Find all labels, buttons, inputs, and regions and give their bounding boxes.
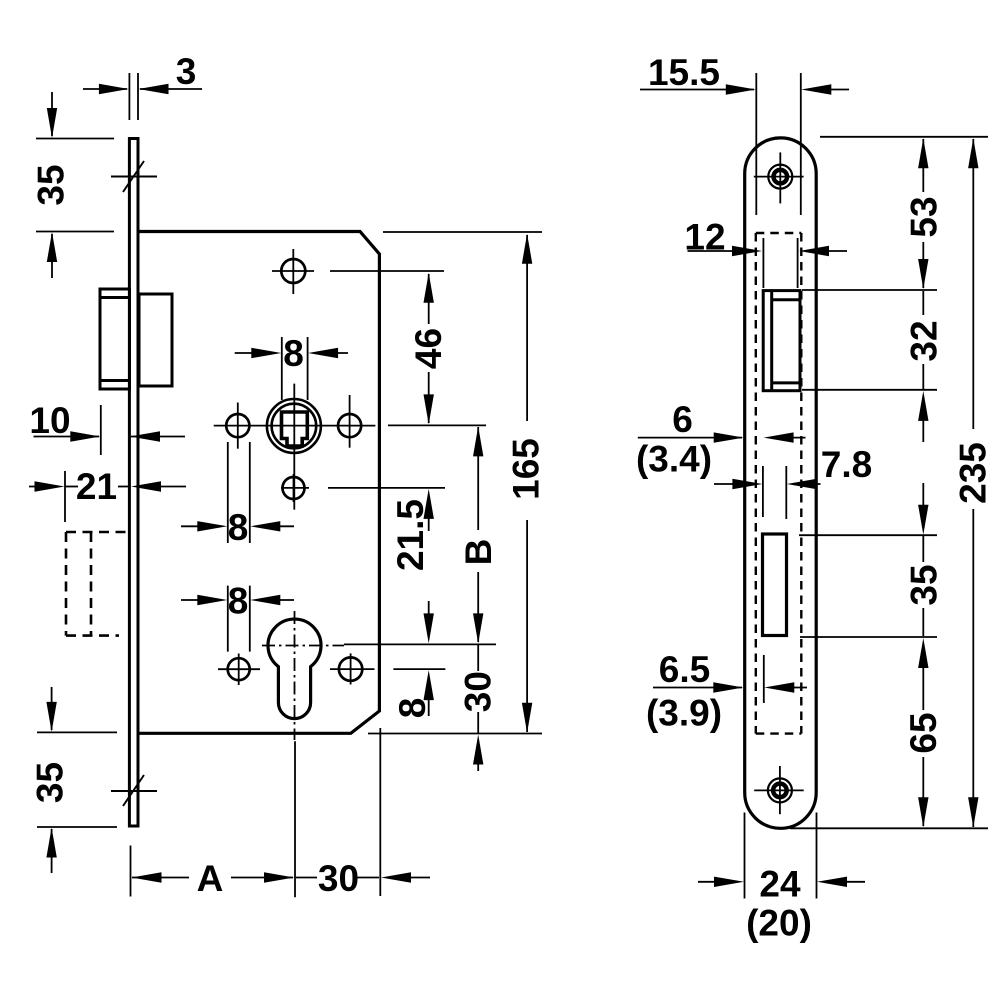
latch bolt front part (left of faceplate) (100, 289, 130, 389)
dim 7.8 extension lines (762, 466, 764, 517)
lower-right fixing hole (339, 657, 362, 680)
dim 46 (top hole to follower) (424, 273, 434, 425)
svg-text:8: 8 (228, 507, 249, 548)
extension line plate bottom (right) (790, 827, 988, 829)
dim 30 (cylinder to case bottom) (473, 645, 483, 771)
extension line plate top (right) (820, 136, 988, 138)
extension line latch top (right) (802, 289, 937, 291)
dim B (follower to cylinder) (473, 426, 483, 643)
dim 21.5 (follower to below hole) (424, 489, 434, 531)
svg-text:(3.9): (3.9) (646, 693, 722, 734)
dim 12 (latch cutout width) (688, 238, 848, 288)
follower hub inner ring (272, 404, 317, 449)
follower centerlines (214, 425, 376, 427)
faceplate break mark top (111, 161, 157, 192)
dim 15.5 (mortise width) (640, 73, 849, 215)
dim 8 (follower square) (235, 337, 348, 400)
dim 10 (latch protrusion) (34, 405, 186, 455)
dim 3 (faceplate thickness) (83, 73, 202, 120)
dim 235 (faceplate length) (968, 138, 978, 827)
svg-text:46: 46 (408, 328, 449, 369)
faceplate break mark bottom (111, 775, 157, 806)
deadbolt thrown position (dashed ghost) (66, 532, 129, 636)
dim 6 (3.4) latch face offset (638, 432, 806, 442)
latch bolt rear part (inside case) (139, 294, 172, 386)
dim 165 (case height) (522, 234, 532, 733)
svg-text:21.5: 21.5 (390, 499, 431, 571)
svg-text:30: 30 (318, 858, 359, 899)
svg-text:A: A (197, 858, 224, 899)
dim 21 (deadbolt throw) (29, 471, 186, 522)
svg-text:6.5: 6.5 (659, 649, 710, 690)
svg-text:65: 65 (903, 712, 944, 753)
euro profile cylinder hole (268, 619, 321, 719)
cylinder centerline vertical (dash-dot) (294, 611, 296, 740)
extension line cylinder row (right) (344, 643, 496, 645)
svg-text:12: 12 (684, 217, 725, 258)
dim 6.5 (3.9) deadbolt face offset (653, 655, 807, 703)
follower hub outer ring (267, 399, 321, 453)
svg-text:235: 235 (952, 442, 993, 504)
top hole centerlines (272, 270, 314, 272)
deadbolt front view (763, 534, 787, 636)
lock case outline (chamfered top-right and bottom-right corners) (139, 232, 379, 734)
extension line lower hole row (right) (393, 668, 445, 670)
extension line case bottom (right) (368, 733, 542, 735)
svg-text:21: 21 (76, 466, 117, 507)
dim 8 vertical (cylinder row to lower holes) (424, 601, 434, 716)
extension line case top (right) (383, 231, 542, 233)
dim 35 (deadbolt height) (922, 535, 924, 636)
dim 8 (upper left hole dia) (181, 442, 294, 543)
svg-text:8: 8 (283, 333, 304, 374)
svg-text:7.8: 7.8 (821, 444, 872, 485)
faceplate (side view, thin vertical plate) (129, 139, 138, 827)
extension line deadbolt top (right) (799, 534, 937, 536)
dim 65 (deadbolt to plate bottom) (918, 638, 928, 827)
svg-text:30: 30 (458, 671, 499, 712)
mortise dashed outline (756, 233, 802, 734)
hole below follower (283, 477, 305, 499)
extension line below-hole row (right) (328, 487, 445, 489)
dim 24 (20) faceplate width (698, 813, 865, 899)
dim 35 bottom (faceplate overhang) (37, 687, 117, 873)
svg-text:B: B (458, 539, 499, 566)
extension line top hole row (right) (330, 270, 444, 272)
latch bolt front view (763, 291, 800, 391)
svg-text:15.5: 15.5 (648, 52, 720, 93)
extension line latch bottom (right) (802, 389, 937, 391)
faceplate front outline (rounded ends) (745, 138, 817, 828)
bottom screw hole (754, 766, 804, 814)
svg-text:6: 6 (672, 399, 693, 440)
left hole beside follower (226, 414, 249, 437)
svg-text:10: 10 (29, 400, 70, 441)
right hole centerline vertical (349, 395, 351, 448)
svg-text:32: 32 (903, 320, 944, 361)
svg-text:35: 35 (30, 762, 71, 803)
lower-left fixing hole (228, 658, 250, 680)
svg-text:8: 8 (392, 698, 433, 719)
dim 53 (plate top to latch) (918, 138, 928, 289)
dim 7.8 (714, 479, 821, 489)
svg-text:35: 35 (31, 164, 72, 205)
svg-text:165: 165 (506, 438, 547, 500)
below-hole centerlines (281, 487, 309, 489)
follower square 8mm spindle hole (282, 412, 308, 446)
svg-text:53: 53 (903, 196, 944, 237)
top screw hole (754, 152, 804, 203)
dim A and 30 (backset chain at bottom) (131, 728, 431, 897)
left hole centerline vertical (237, 403, 239, 449)
right hole beside follower (338, 414, 361, 437)
svg-text:3: 3 (176, 51, 197, 92)
extension line follower row (right) (388, 424, 486, 426)
arrows between latch bottom and deadbolt top (918, 391, 928, 535)
svg-text:35: 35 (904, 564, 945, 605)
dim 32 (latch height) (922, 291, 924, 389)
extension line deadbolt bottom (right) (800, 636, 937, 638)
lower-left hole centerlines (218, 668, 260, 670)
svg-text:8: 8 (228, 581, 249, 622)
dim 8 (lower left hole dia) (181, 586, 294, 652)
dim 35 top (faceplate overhang) (36, 92, 114, 278)
cylinder centerline horizontal (dash-dot) (262, 645, 344, 647)
svg-text:(3.4): (3.4) (636, 439, 712, 480)
svg-text:(20): (20) (746, 903, 812, 944)
svg-text:24: 24 (759, 864, 801, 905)
top fixing hole (281, 259, 305, 283)
lower-right hole centerlines (330, 668, 375, 670)
